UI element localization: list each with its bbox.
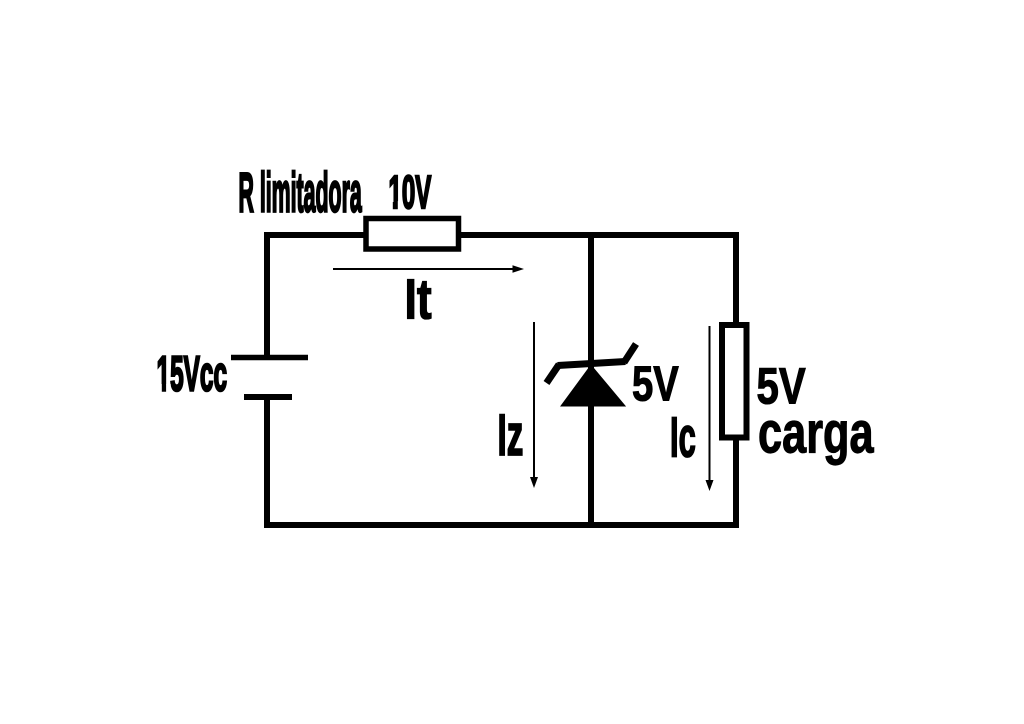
label Iz: [498, 403, 524, 468]
svg-text:Iz: Iz: [498, 403, 524, 468]
current arrow Iz: [530, 322, 538, 488]
zener diode left tick: [547, 365, 560, 384]
svg-text:5V: 5V: [632, 357, 679, 412]
svg-text:10V: 10V: [389, 165, 432, 218]
resistor carga body: [722, 325, 747, 438]
resistor R limitadora body: [366, 219, 459, 250]
svg-text:R limitadora: R limitadora: [239, 161, 363, 223]
label 5V (load voltage): [757, 358, 807, 414]
label 5V (zener voltage): [632, 357, 679, 412]
battery 15Vcc positive plate: [231, 355, 308, 361]
wire right vertical lower: [733, 437, 739, 528]
svg-text:15Vcc: 15Vcc: [157, 348, 228, 402]
label carga: [758, 400, 874, 465]
current arrow It: [333, 265, 524, 273]
label Ic: [670, 406, 696, 469]
svg-text:carga: carga: [758, 400, 874, 465]
wire middle branch vertical: [588, 232, 594, 528]
label 10V (voltage across resistor): [388, 165, 431, 218]
svg-text:Ic: Ic: [670, 406, 696, 469]
current arrow Ic: [706, 326, 714, 491]
label 15Vcc (battery value): [156, 348, 227, 402]
zener diode cathode bar: [558, 362, 626, 366]
wire bottom rail: [264, 522, 739, 528]
label It: [405, 267, 432, 331]
wire left vertical upper: [264, 232, 270, 355]
zener diode right tick: [624, 344, 636, 363]
svg-text:It: It: [405, 267, 432, 331]
label R limitadora: [239, 161, 363, 223]
wire left vertical lower: [264, 397, 270, 528]
wire top rail: [264, 232, 739, 238]
wire right vertical upper: [733, 232, 739, 325]
zener diode triangle (anode): [562, 366, 624, 406]
battery 15Vcc negative plate: [244, 394, 292, 400]
